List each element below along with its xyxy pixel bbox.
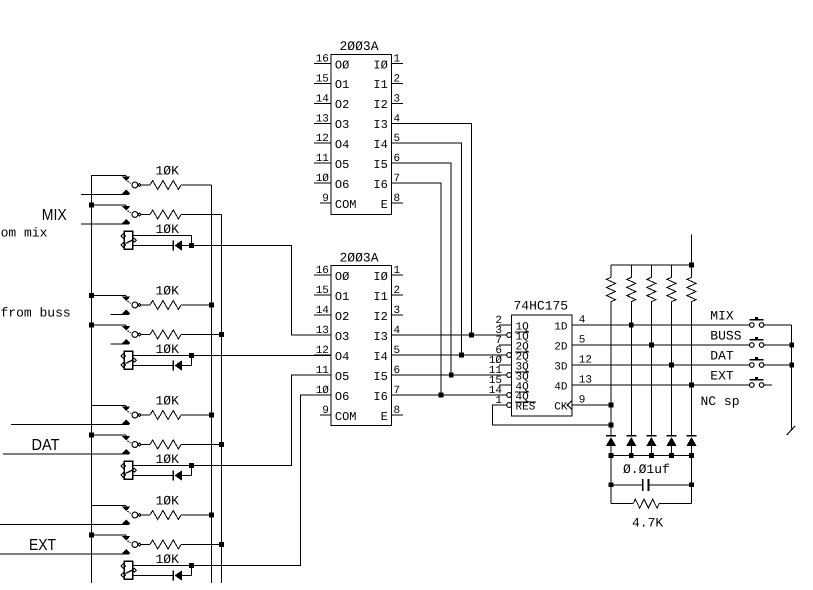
svg-text:OØ: OØ [335,270,349,284]
svg-text:O3: O3 [335,118,349,132]
svg-text:1ØK: 1ØK [156,222,180,237]
wire cap lead right [649,484,692,486]
pin U3.3 bubble [507,333,512,338]
pin U2.12 stub [314,354,331,356]
svg-text:1: 1 [394,265,401,277]
junction EXT row at column [689,383,694,388]
svg-text:9: 9 [322,193,329,205]
wire resistor bus 1 [211,185,213,583]
pin U1.1 stub [391,63,403,65]
resistor DAT-R1 10K [141,414,150,416]
pin U1.7 stub [391,182,403,184]
pin U2.7 stub [391,394,403,396]
junction sense bus col5 [689,453,694,458]
resistor BUSS-R1 10K [141,304,150,306]
svg-text:I4: I4 [373,350,387,364]
svg-text:I6: I6 [373,390,387,404]
svg-text:BUSS: BUSS [710,329,741,344]
resistor MIX-R1 10K [141,184,150,186]
wire BUSS button to common [764,344,792,346]
svg-text:2D: 2D [554,341,568,353]
svg-text:O4: O4 [335,350,349,364]
svg-text:1ØK: 1ØK [156,494,180,509]
wire cap lead left [611,484,643,486]
svg-text:NC sp: NC sp [701,394,740,409]
wire MIX bus top corner [92,175,126,205]
svg-text:DAT: DAT [32,437,60,454]
pin U1.14 stub [314,102,331,104]
svg-text:I3: I3 [373,330,387,344]
svg-text:I1: I1 [373,78,387,92]
svg-text:11: 11 [316,365,330,377]
IC U3 74HC175 body [512,315,573,416]
wire BUSS switch2 feed [92,324,126,326]
wire U2 pin7 to U3 [391,394,506,396]
svg-text:I2: I2 [373,310,387,324]
svg-text:EXT: EXT [29,537,56,554]
diode D6 [626,435,636,437]
pin U1.6 stub [391,162,403,164]
svg-text:CK: CK [554,401,568,413]
svg-text:MIX: MIX [42,207,67,224]
resistor RN2 pull-up [630,265,632,277]
svg-text:8: 8 [394,405,401,417]
capacitor C1 0.01uf [642,479,644,491]
wire K3 diode to node [182,475,192,477]
wire K1 coil top [133,236,192,246]
svg-text:from mix: from mix [0,226,48,241]
svg-text:14: 14 [316,305,330,317]
wire U1 pin6 to U2 output column [391,163,451,375]
wire DAT switch2 lower throw [3,453,129,455]
wire MIX button to common [764,324,792,326]
wire K3 coil top to IC2 pin11 [133,375,331,466]
resistor DAT-R2 10K [141,444,150,446]
pin U1.12 stub [314,142,331,144]
pin U1.15 stub [314,82,331,84]
svg-text:15: 15 [316,73,329,85]
clock chevron U3 CK [567,401,572,410]
pin U2.11 stub [314,374,331,376]
junction BUSS switch2 at left bus [89,323,94,328]
wire EXT switch1 feed [92,504,126,506]
wire K3 coil bottom [133,475,174,477]
svg-text:I5: I5 [373,370,387,384]
junction MIX row at column [629,323,634,328]
wire DAT button to common [764,364,792,366]
svg-text:I5: I5 [373,158,387,172]
wire resistor bus 2 [221,215,223,584]
svg-text:RES: RES [516,401,536,413]
svg-text:16: 16 [316,265,329,277]
pin U2.3 stub [391,314,403,316]
svg-text:1D: 1D [554,321,568,333]
svg-text:O1: O1 [335,78,349,92]
wire diode D9 to sense bus [691,446,693,456]
pushbutton SW1 MIX [750,323,755,328]
wire U2 pin4 to U3 [391,334,506,336]
junction U1 pin7 column [439,393,444,398]
svg-text:COM: COM [335,410,357,424]
pin U1.10 stub [314,182,331,184]
junction BUSS switch1 at left bus [89,293,94,298]
svg-text:1ØK: 1ØK [156,284,180,299]
wire cap branch left [610,455,612,503]
pin U1.8 stub [391,202,403,204]
pin U2.10 stub [314,394,331,396]
junction DAT-R2 to bus2 [219,442,224,447]
junction sense bus col4 [669,453,674,458]
junction DAT row at column [669,363,674,368]
wire pullup top bus [611,264,692,266]
wire K1 diode to node [182,245,192,247]
resistor MIX-R2 10K [141,214,150,216]
svg-text:E: E [381,410,388,424]
wire MIX switch1 lower throw [81,194,129,196]
off-page connector slash [787,426,795,435]
junction sense bus col3 [649,453,654,458]
junction BUSS-R2 to bus2 [219,332,224,337]
junction EXT-R2 to bus2 [219,542,224,547]
svg-text:EXT: EXT [710,369,734,384]
svg-text:IØ: IØ [373,58,387,72]
wire diode D8 to sense bus [671,446,673,456]
pin U3.6 bubble [507,353,512,358]
pin U1.3 stub [391,102,403,104]
pin U2.9 stub [320,414,331,416]
svg-text:1ØK: 1ØK [156,342,180,357]
junction MIX switch2 at left bus [89,203,94,208]
svg-text:from buss: from buss [1,306,71,321]
svg-text:13: 13 [316,113,329,125]
svg-text:16: 16 [316,54,329,66]
switch DAT-S1 [125,405,127,406]
wire U2 pin5 to U3 [391,354,506,356]
wire U3 output row EXT [572,384,749,386]
junction EXT-R1 to bus1 [209,513,214,518]
svg-text:O6: O6 [335,178,349,192]
junction sense bus col2 [629,453,634,458]
svg-text:1ØK: 1ØK [156,452,180,467]
pin U1.4 stub [391,122,403,124]
svg-text:14: 14 [316,93,330,105]
svg-text:8: 8 [394,193,401,205]
relay coil K3 (dat) [124,461,132,479]
svg-text:O5: O5 [335,370,349,384]
pin U3.2 stub [499,324,512,326]
relay coil K4 (ext) [124,561,132,579]
svg-text:O1: O1 [335,290,349,304]
diode D3 flyback [172,470,174,480]
junction cap right [689,482,694,487]
wire K2 coil bottom [133,365,174,367]
svg-text:I6: I6 [373,178,387,192]
wire diode D7 to sense bus [650,446,652,456]
wire diode D5 to sense bus [610,446,612,456]
pin U2.2 stub [391,294,403,296]
resistor EXT-R2 10K [141,544,150,546]
svg-text:COM: COM [335,198,357,212]
junction DAT switch2 at left bus [89,433,94,438]
wire BUSS switch2 lower throw [111,343,129,345]
junction K4 output node [189,563,194,568]
wire +V stem [691,234,693,265]
wire button common [791,325,793,429]
svg-text:2ØØ3A: 2ØØ3A [340,39,379,54]
svg-text:Ø.Ø1uf: Ø.Ø1uf [623,462,670,477]
junction RES loop at column1 [609,423,614,428]
pin U3.7 stub [499,344,512,346]
wire DAT switch1 lower throw [11,424,129,426]
diode D1 flyback [172,240,174,250]
wire U3 RES loop [492,405,611,425]
pin U2.6 stub [391,374,403,376]
pin U2.8 stub [391,414,403,416]
pin U1.11 stub [314,162,331,164]
switch BUSS-S1 [125,295,127,296]
junction BUSS-R1 to bus1 [209,303,214,308]
junction U1 pin4 column [469,333,474,338]
svg-text:3D: 3D [554,361,568,373]
wire K4 coil bottom [133,575,174,577]
svg-text:O3: O3 [335,330,349,344]
wire K1 to IC2 pin13 [192,246,331,336]
junction top bus corner [689,263,694,268]
svg-text:1ØK: 1ØK [156,552,180,567]
switch EXT-S1 [125,505,127,506]
svg-text:3: 3 [394,305,401,317]
resistor R9 4.7K [611,503,633,505]
pin U2.16 stub [314,274,331,276]
junction K3 output node [189,463,194,468]
wire EXT switch2 feed [92,534,126,536]
relay coil K2 (buss) [124,351,132,369]
pin U2.14 stub [314,314,331,316]
switch MIX-S1 [125,175,127,176]
pin U1.2 stub [391,82,403,84]
junction common BUSS [789,343,794,348]
wire U3 output row BUSS [572,344,749,346]
diode D5 [606,435,616,437]
svg-text:13: 13 [316,325,329,337]
junction CK at column1 [609,403,614,408]
svg-text:I1: I1 [373,290,387,304]
diode D8 [667,435,677,437]
pin U3.1 bubble [507,403,512,408]
junction EXT switch2 at left bus [89,533,94,538]
svg-text:3: 3 [394,93,401,105]
svg-text:9: 9 [322,405,329,417]
pin U1.16 stub [314,63,331,65]
resistor RN3 pull-up [650,265,652,277]
svg-text:O2: O2 [335,98,349,112]
wire U3 output row MIX [572,324,749,326]
wire EXT button stub [764,384,772,386]
relay coil K1 (mix) [124,231,132,249]
wire diode D6 to sense bus [630,446,632,456]
pin U1.9 stub [320,202,331,204]
switch MIX-S2 [125,205,127,206]
wire U3 CK to column1 [572,404,611,406]
wire left bus [91,175,93,583]
pin U2.15 stub [314,294,331,296]
wire EXT switch1 lower throw [0,524,129,526]
diode D7 [646,435,656,437]
wire K4 diode to node [182,575,192,577]
svg-text:O2: O2 [335,310,349,324]
wire BUSS switch1 feed [92,294,126,296]
svg-text:2: 2 [394,285,401,297]
pin U2.4 stub [391,334,403,336]
svg-text:12: 12 [316,133,329,145]
svg-text:74HC175: 74HC175 [514,299,569,314]
svg-text:E: E [381,198,388,212]
wire K4 coil top to IC2 pin10 [133,395,331,566]
resistor RN1 pull-up [610,265,612,277]
diode D2 flyback [172,360,174,370]
IC U2 2003A body [331,266,391,426]
pushbutton SW4 EXT [750,383,755,388]
svg-text:1: 1 [394,54,401,66]
svg-text:15: 15 [316,285,329,297]
wire U1 pin4 to U2 output column [391,123,471,335]
wire U3 output row DAT [572,364,749,366]
pin U3.14 bubble [507,393,512,398]
pin U3.10 stub [499,364,512,366]
svg-text:I2: I2 [373,98,387,112]
svg-text:DAT: DAT [710,349,734,364]
wire EXT switch2 lower throw [0,553,129,555]
svg-text:I4: I4 [373,138,387,152]
pin U1.13 stub [314,122,331,124]
svg-text:IØ: IØ [373,270,387,284]
wire K4 node drop [191,566,193,576]
wire cap branch right [691,455,693,503]
svg-text:2ØØ3A: 2ØØ3A [340,251,379,266]
pin U1.5 stub [391,142,403,144]
svg-text:O6: O6 [335,390,349,404]
svg-text:1ØK: 1ØK [156,164,180,179]
svg-text:O5: O5 [335,158,349,172]
wire DAT switch1 feed [92,404,126,406]
wire K1 coil bottom [133,245,174,247]
junction common DAT [789,363,794,368]
pushbutton SW2 BUSS [750,343,755,348]
switch BUSS-S2 [125,325,127,326]
resistor EXT-R1 10K [141,514,150,516]
pin U2.5 stub [391,354,403,356]
resistor RN5 pull-up [691,265,693,277]
wire MIX switch2 feed [92,204,126,206]
wire U1 pin7 to U2 output column [391,183,441,395]
wire K2 diode to node [182,365,192,367]
wire BUSS switch1 lower throw [111,314,129,316]
junction BUSS row at column [649,343,654,348]
wire U2 pin6 to U3 [391,374,506,376]
pushbutton SW3 DAT [750,363,755,368]
wire DAT switch2 feed [92,434,126,436]
wire MIX switch2 lower throw [81,223,129,225]
wire U1 pin5 to U2 output column [391,143,461,355]
pin U3.11 bubble [507,373,512,378]
IC U1 2003A body [331,55,391,215]
svg-text:1Ø: 1Ø [316,173,330,185]
switch EXT-S2 [125,535,127,536]
resistor BUSS-R2 10K [141,334,150,336]
junction cap left [609,482,614,487]
diode D4 flyback [172,570,174,580]
pin U2.1 stub [391,274,403,276]
pin U2.13 stub [314,334,331,336]
wire K3 node drop [191,466,193,476]
svg-text:12: 12 [316,345,329,357]
junction K1 output node [189,243,194,248]
wire sense bus [611,454,692,456]
junction DAT-R1 to bus1 [209,413,214,418]
resistor RN4 pull-up [671,265,673,277]
pin U3.15 stub [499,384,512,386]
svg-text:MIX: MIX [710,309,734,324]
diode D9 [687,435,697,437]
wire K2 coil top to IC2 pin12 [133,355,331,357]
switch DAT-S2 [125,435,127,436]
svg-text:I3: I3 [373,118,387,132]
wire K2 node drop [191,356,193,366]
junction U1 pin6 column [449,373,454,378]
svg-text:4.7K: 4.7K [632,516,663,531]
svg-text:1ØK: 1ØK [156,394,180,409]
svg-text:1Ø: 1Ø [316,385,330,397]
svg-text:2: 2 [394,73,401,85]
svg-text:11: 11 [316,153,330,165]
svg-text:4D: 4D [554,381,568,393]
junction sense bus col1 [609,453,614,458]
junction U1 pin5 column [459,353,464,358]
junction K2 output node [189,353,194,358]
svg-text:OØ: OØ [335,58,349,72]
svg-text:O4: O4 [335,138,349,152]
